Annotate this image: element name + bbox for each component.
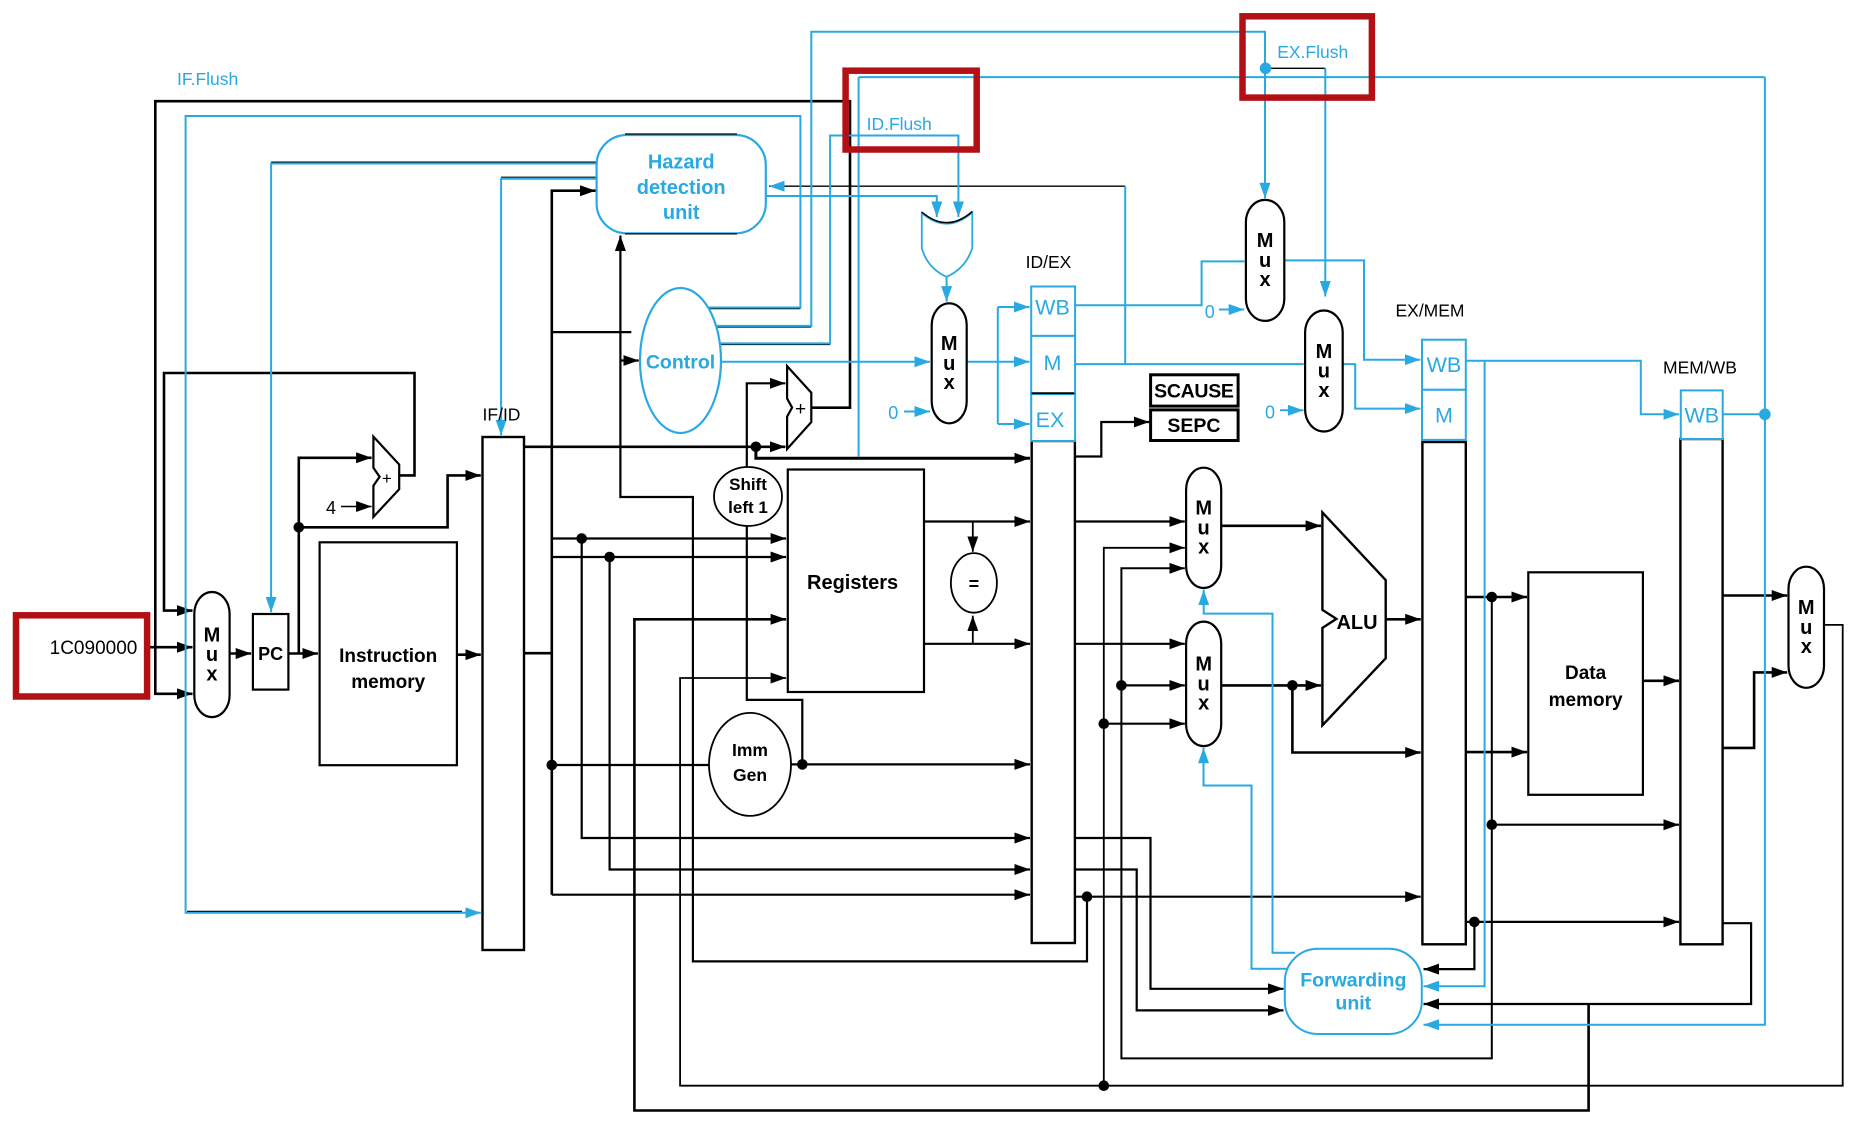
svg-text:x: x — [1260, 269, 1271, 291]
svg-text:M: M — [1195, 654, 1212, 676]
svg-text:1C090000: 1C090000 — [50, 638, 138, 659]
svg-text:Forwarding: Forwarding — [1300, 969, 1406, 991]
svg-text:EX.Flush: EX.Flush — [1277, 42, 1348, 62]
svg-text:M: M — [1257, 230, 1274, 252]
svg-text:+: + — [382, 469, 392, 488]
svg-text:M: M — [204, 624, 221, 646]
svg-text:M: M — [1195, 498, 1212, 520]
svg-text:x: x — [944, 372, 955, 394]
svg-text:PC: PC — [258, 644, 283, 664]
svg-text:0: 0 — [888, 403, 898, 423]
svg-text:IF.Flush: IF.Flush — [177, 69, 238, 89]
svg-text:memory: memory — [1549, 690, 1623, 711]
svg-text:x: x — [1198, 693, 1209, 715]
svg-text:x: x — [1318, 380, 1329, 402]
svg-text:unit: unit — [1335, 992, 1371, 1014]
svg-text:M: M — [1798, 597, 1815, 619]
svg-text:ID/EX: ID/EX — [1026, 252, 1072, 272]
svg-text:0: 0 — [1205, 302, 1215, 322]
svg-text:unit: unit — [663, 202, 700, 224]
svg-text:Gen: Gen — [733, 765, 767, 785]
svg-text:Instruction: Instruction — [339, 646, 437, 667]
svg-text:M: M — [1044, 351, 1062, 375]
svg-text:SEPC: SEPC — [1167, 415, 1220, 437]
svg-text:WB: WB — [1427, 353, 1462, 377]
svg-text:Control: Control — [646, 352, 715, 374]
svg-text:M: M — [1316, 341, 1333, 363]
svg-text:M: M — [1435, 404, 1453, 428]
svg-text:EX/MEM: EX/MEM — [1395, 301, 1464, 321]
svg-text:memory: memory — [351, 672, 425, 693]
svg-text:=: = — [969, 574, 980, 594]
svg-text:IF/ID: IF/ID — [483, 405, 521, 425]
svg-text:ID.Flush: ID.Flush — [867, 114, 932, 134]
svg-text:MEM/WB: MEM/WB — [1663, 358, 1737, 378]
svg-text:M: M — [941, 333, 958, 355]
svg-text:0: 0 — [1265, 403, 1275, 423]
svg-text:4: 4 — [326, 498, 336, 518]
svg-text:EX: EX — [1036, 408, 1065, 432]
svg-text:Data: Data — [1565, 663, 1607, 684]
svg-text:WB: WB — [1684, 404, 1719, 428]
svg-text:Imm: Imm — [732, 740, 768, 760]
svg-text:WB: WB — [1035, 296, 1070, 320]
svg-text:Registers: Registers — [807, 572, 898, 594]
svg-text:x: x — [1801, 636, 1812, 658]
svg-text:Hazard: Hazard — [648, 152, 715, 174]
svg-text:x: x — [206, 663, 217, 685]
svg-text:Shift: Shift — [729, 475, 767, 494]
svg-text:ALU: ALU — [1336, 612, 1377, 634]
svg-text:detection: detection — [637, 177, 726, 199]
svg-text:left 1: left 1 — [728, 498, 768, 517]
svg-text:+: + — [795, 399, 806, 420]
svg-text:x: x — [1198, 537, 1209, 559]
svg-text:SCAUSE: SCAUSE — [1154, 381, 1234, 403]
